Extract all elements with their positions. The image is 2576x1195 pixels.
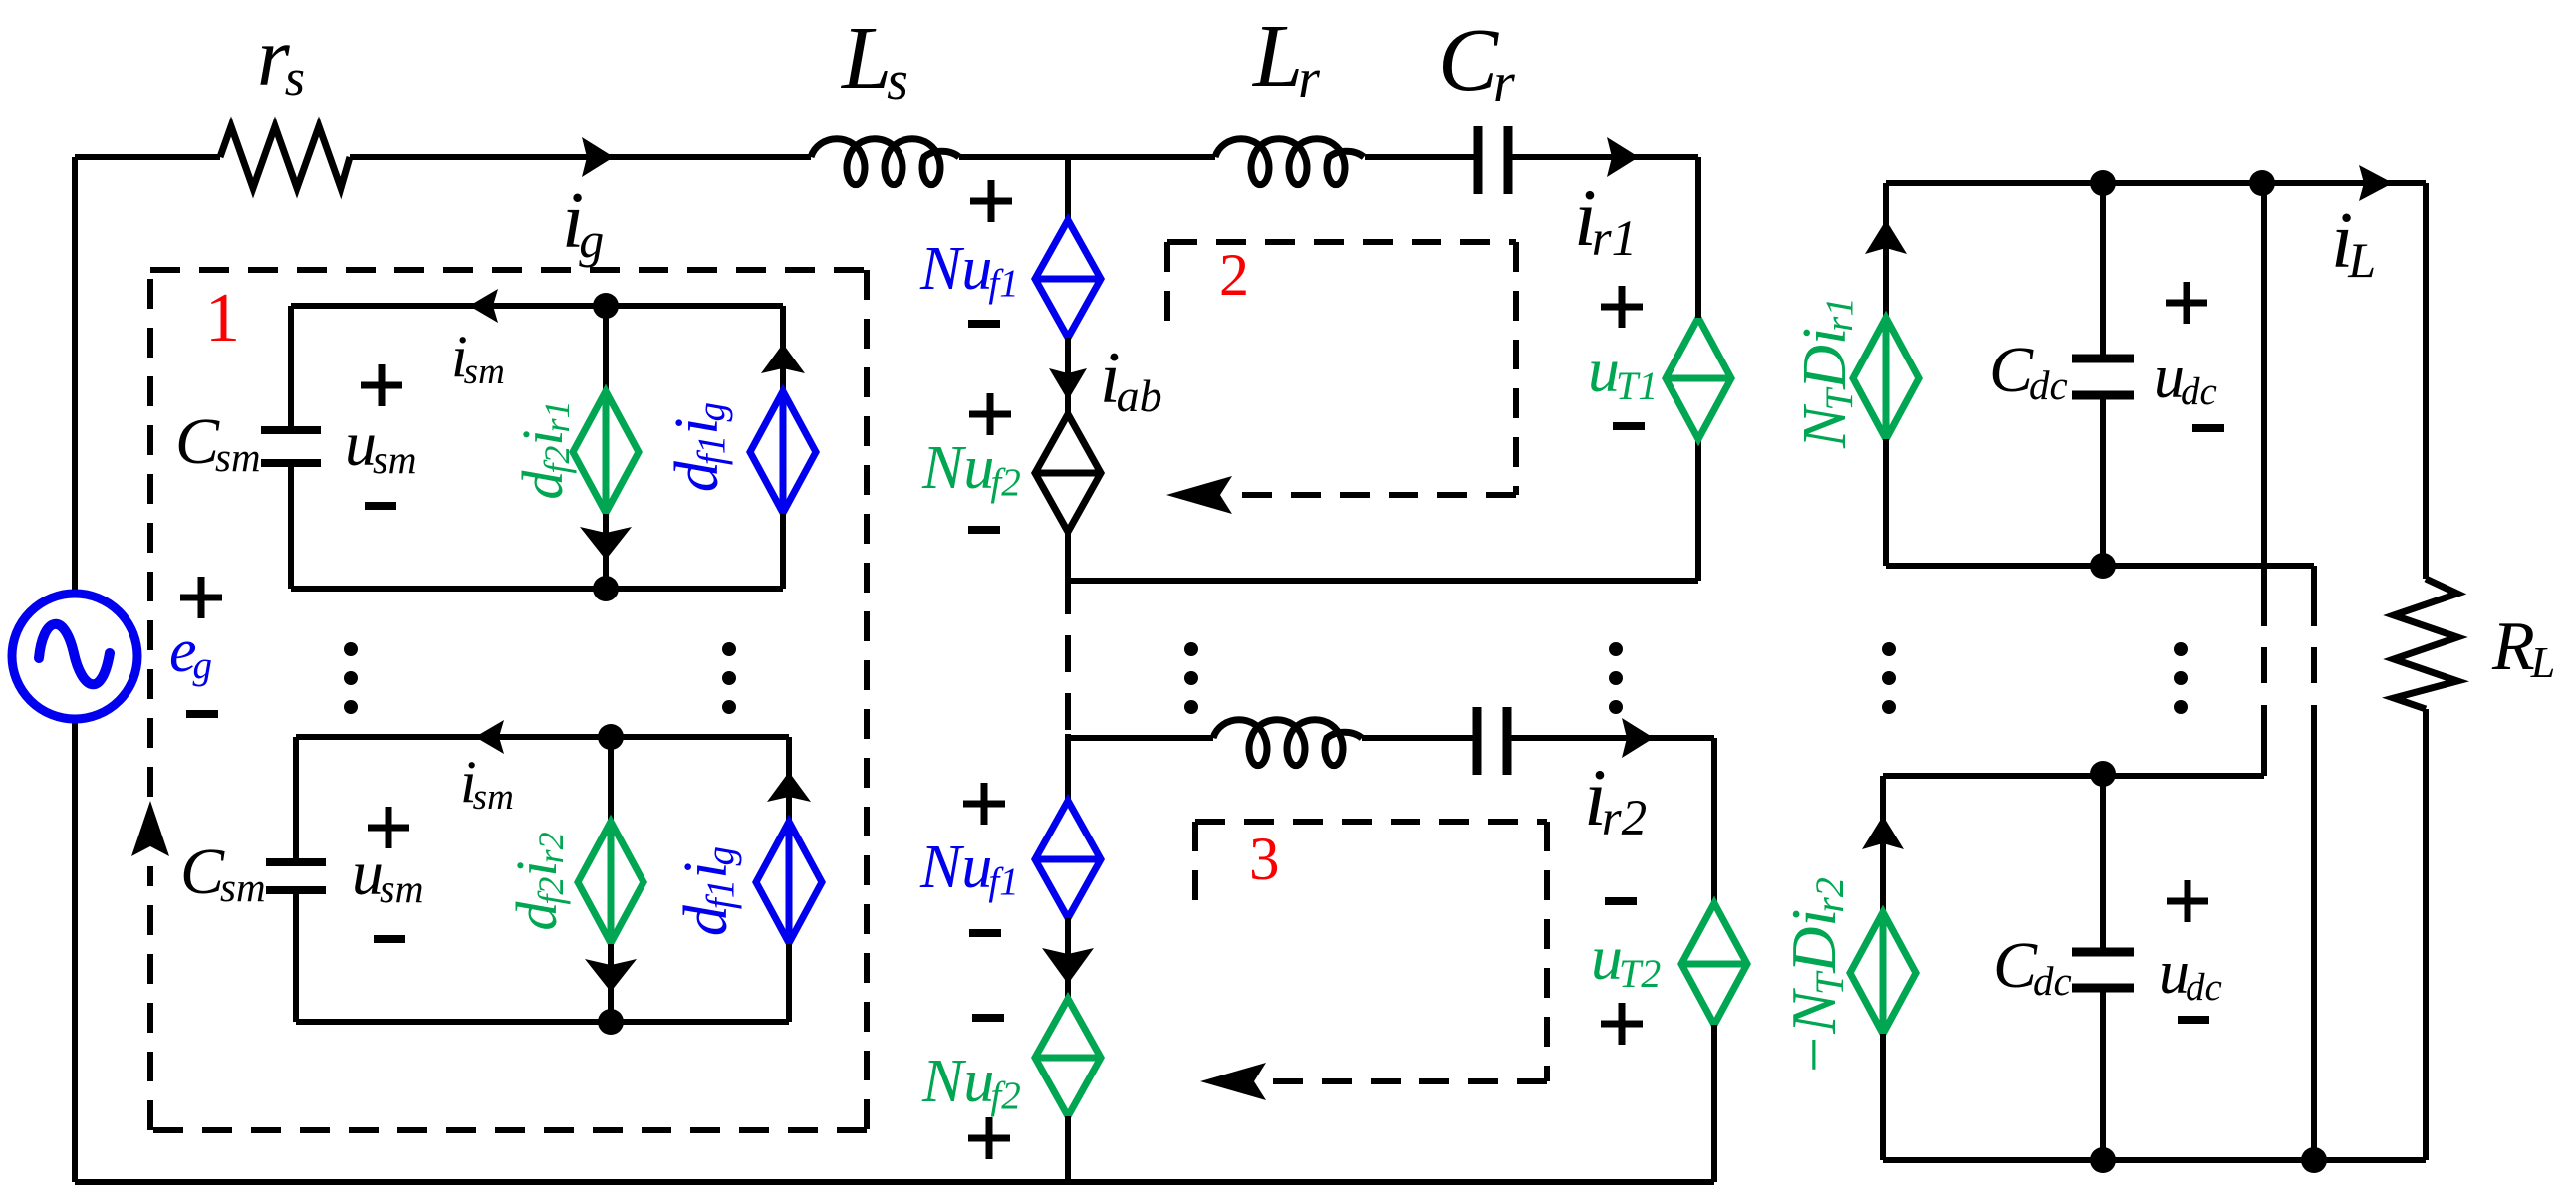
wire Cdc lower bottom lead xyxy=(2100,988,2106,1160)
inductor Lr xyxy=(1215,139,1364,185)
minus usm cell2 xyxy=(374,935,405,943)
wire Nuf2 to junction ch1 xyxy=(1065,533,1071,614)
minus eg xyxy=(186,710,218,718)
continuation dots left column xyxy=(344,642,358,714)
svg-text:Cr: Cr xyxy=(1438,11,1515,114)
arrow above df1ig cell2 xyxy=(767,772,811,802)
arrow iab xyxy=(1049,368,1087,400)
capacitor Cr xyxy=(1478,126,1508,194)
wire ch2 junction to Nuf1 xyxy=(1065,734,1071,801)
svg-text:Cdc: Cdc xyxy=(1989,334,2068,408)
svg-text:usm: usm xyxy=(352,837,424,911)
capacitor Csm cell2 xyxy=(266,862,326,890)
wire ch2 capacitor to uT2 xyxy=(1507,735,1714,741)
plus Nuf2 ch1 xyxy=(969,393,1011,435)
wire NTDir2 top lead xyxy=(1880,776,1886,912)
svg-text:usm: usm xyxy=(345,408,417,482)
cell2 blue source bottom lead xyxy=(786,944,792,1022)
plus Nuf1 ch1 xyxy=(970,180,1012,222)
svg-text:Nuf1: Nuf1 xyxy=(919,834,1019,903)
arrow ig current xyxy=(582,137,614,177)
svg-text:Cdc: Cdc xyxy=(1993,929,2072,1004)
capacitor Cdc upper xyxy=(2072,358,2134,395)
cell2 top wire xyxy=(296,734,789,740)
wire ch2 inductor to capacitor xyxy=(1362,735,1477,741)
wire left vertical upper xyxy=(72,157,78,595)
svg-text:1: 1 xyxy=(205,280,240,357)
arrow NTDir2 current xyxy=(1862,816,1904,849)
cell1 left wire upper xyxy=(288,306,294,430)
source uT1 xyxy=(1666,318,1731,439)
svg-text:Lr: Lr xyxy=(1251,7,1320,110)
continuation dots middle-right column xyxy=(1609,642,1623,714)
minus uT2 xyxy=(1605,897,1637,905)
cell1 green source top lead xyxy=(603,306,609,391)
svg-text:udc: udc xyxy=(2154,344,2217,413)
AC source sine wave xyxy=(39,624,110,684)
controlled source df2ir1 cell1 xyxy=(573,391,639,513)
wire ch2 to inductor xyxy=(1068,735,1213,741)
arrow on box1 left edge xyxy=(131,801,169,856)
plus udc upper xyxy=(2166,282,2207,324)
svg-text:iab: iab xyxy=(1100,338,1162,421)
cell1 green source bottom lead xyxy=(603,514,609,589)
wire Cr to uT1 branch xyxy=(1508,154,1698,160)
cell2 left wire lower xyxy=(293,890,299,1022)
arrow ir2 current xyxy=(1622,718,1654,758)
dashed box 2 bottom edge xyxy=(1235,492,1516,498)
plus uT2 xyxy=(1601,1003,1643,1045)
arrow below df2ir2 cell2 xyxy=(585,959,637,992)
svg-text:iL: iL xyxy=(2331,197,2376,288)
dashed box 3 right edge xyxy=(1544,822,1550,1081)
plus Nuf1 ch2 xyxy=(963,783,1005,825)
dashed box 2 top edge xyxy=(1167,239,1516,245)
controlled source df1ig cell1 xyxy=(750,391,816,513)
plus uT1 xyxy=(1601,286,1643,328)
svg-text:Nuf2: Nuf2 xyxy=(921,434,1021,504)
cell2 blue source top lead xyxy=(786,737,792,821)
capacitor Csm cell1 xyxy=(261,430,321,463)
resistor RL xyxy=(2394,579,2457,709)
wire right parallel vertical upper xyxy=(2261,183,2267,776)
wire Nuf1 to Nuf2 ch2 xyxy=(1065,918,1071,1000)
wire right series vertical xyxy=(2311,566,2317,1160)
cell2 bottom wire xyxy=(296,1019,789,1025)
node right bottom series xyxy=(2301,1147,2327,1173)
wire NTDir1 top lead xyxy=(1883,183,1889,318)
svg-text:ism: ism xyxy=(460,749,514,818)
arrow NTDir1 current xyxy=(1865,220,1907,254)
dashed box 2 left stub xyxy=(1164,242,1170,329)
wire right block upper bottom xyxy=(1886,563,2314,569)
cell2 green source top lead xyxy=(608,737,614,822)
plus udc lower xyxy=(2167,880,2208,922)
dashed continuation of middle branch xyxy=(1065,635,1071,730)
cell1 left wire lower xyxy=(288,463,294,589)
source NTDir1 xyxy=(1853,318,1919,439)
arrow ir1 current xyxy=(1607,137,1639,177)
cell1 bottom wire xyxy=(291,586,783,592)
cell1 blue source top lead xyxy=(780,306,786,389)
arrow above df1ig cell1 xyxy=(761,344,805,373)
minus Nuf1 ch1 xyxy=(968,320,1000,328)
minus Nuf2 ch2 xyxy=(972,1014,1004,1022)
plus eg xyxy=(180,577,222,618)
wire uT2 bottom lead xyxy=(1711,1025,1717,1182)
node cell2 bottom xyxy=(598,1009,624,1035)
minus udc lower xyxy=(2178,1016,2209,1024)
svg-text:df1 ig: df1 ig xyxy=(663,402,733,492)
cell1 blue source bottom lead xyxy=(780,514,786,589)
source Nuf2 ch1 xyxy=(1035,414,1101,532)
arrow on box3 bottom edge xyxy=(1200,1063,1266,1100)
cell2 green source bottom lead xyxy=(608,944,614,1022)
minus usm cell1 xyxy=(365,502,396,510)
dashed box 1 bottom edge xyxy=(150,1127,867,1133)
wire RL bottom lead xyxy=(2423,709,2429,1160)
continuation dots middle-left column xyxy=(1184,642,1198,714)
dashed box 2 right edge xyxy=(1513,242,1519,495)
arrow ism cell1 xyxy=(469,289,498,323)
wire uT1 bottom lead xyxy=(1695,439,1701,581)
source negative NTDir2 xyxy=(1850,912,1916,1034)
source Nuf2 ch2 xyxy=(1035,999,1101,1116)
arrow ism cell2 xyxy=(475,720,504,754)
wire Cdc upper bottom lead xyxy=(2100,395,2106,566)
cell1 top wire xyxy=(291,303,783,309)
wire rs to Ls xyxy=(350,154,811,160)
plus usm cell2 xyxy=(368,807,409,848)
svg-text:Ls: Ls xyxy=(840,9,908,112)
svg-text:df2 ir1: df2 ir1 xyxy=(510,400,577,499)
minus Nuf2 ch1 xyxy=(968,526,1000,534)
wire top node to Nuf1 xyxy=(1065,157,1071,221)
wire Cdc lower top lead xyxy=(2100,776,2106,952)
wire top-left from source to rs xyxy=(75,154,220,160)
wire right block lower top xyxy=(1883,773,2264,779)
plus Nuf2 ch2 xyxy=(968,1117,1010,1159)
dashed box 1 right edge xyxy=(864,270,870,1130)
continuation dots right Cdc column xyxy=(2174,642,2188,714)
continuation dots cell right column xyxy=(722,642,736,714)
wire NTDir2 bottom lead xyxy=(1880,1034,1886,1160)
node right lower top Cdc xyxy=(2090,761,2116,787)
svg-text:ir2: ir2 xyxy=(1584,752,1647,846)
plus usm cell1 xyxy=(361,364,402,406)
svg-text:df1 ig: df1 ig xyxy=(672,846,742,936)
svg-text:Nuf1: Nuf1 xyxy=(919,235,1019,305)
wire left vertical lower xyxy=(72,718,78,1182)
dashed box 3 bottom edge xyxy=(1266,1078,1547,1084)
continuation dots right source column xyxy=(1882,642,1896,714)
controlled source df1ig cell2 xyxy=(756,822,822,943)
controlled source df2ir2 cell2 xyxy=(578,822,644,943)
svg-text:−NT Dir2: −NT Dir2 xyxy=(1778,877,1852,1076)
node right bottom Cdc xyxy=(2090,1147,2116,1173)
dashed box 1 top edge xyxy=(150,267,867,273)
svg-text:uT2: uT2 xyxy=(1591,922,1661,996)
wire right block top xyxy=(1886,180,2426,186)
source uT2 xyxy=(1681,903,1747,1025)
svg-text:RL: RL xyxy=(2491,608,2555,687)
svg-text:ig: ig xyxy=(562,177,604,268)
arrow ch2 current xyxy=(1042,948,1094,984)
svg-text:df2 ir2: df2 ir2 xyxy=(504,832,571,930)
dashed box 1 left edge upper xyxy=(147,270,153,797)
node cell1 bottom xyxy=(593,576,619,601)
svg-text:NT Dir1: NT Dir1 xyxy=(1791,297,1861,449)
dashed box 1 left edge lower xyxy=(147,866,153,1130)
arrow on box2 bottom edge xyxy=(1166,476,1232,514)
resistor rs xyxy=(220,126,350,188)
wire uT2 top lead xyxy=(1711,738,1717,903)
wire Nuf2 ch2 to bottom xyxy=(1065,1116,1071,1182)
arrow below df2ir1 cell1 xyxy=(580,527,632,560)
wire Nuf1 to Nuf2 ch1 xyxy=(1065,338,1071,413)
wire bottom return xyxy=(75,1179,1714,1185)
node right top parallel xyxy=(2249,170,2275,196)
node right top Cdc xyxy=(2090,170,2116,196)
minus Nuf1 ch2 xyxy=(969,929,1001,937)
svg-text:2: 2 xyxy=(1219,242,1249,308)
svg-text:Csm: Csm xyxy=(175,405,261,480)
arrow iL current xyxy=(2359,165,2393,201)
wire uT1 top lead xyxy=(1695,157,1701,318)
svg-text:uT1: uT1 xyxy=(1588,335,1658,408)
wire NTDir1 bottom lead xyxy=(1883,439,1889,566)
inductor Ls xyxy=(811,139,959,185)
svg-text:ism: ism xyxy=(451,324,505,392)
dashed box 3 top edge xyxy=(1195,819,1547,825)
svg-text:udc: udc xyxy=(2159,939,2222,1009)
svg-text:Nuf2: Nuf2 xyxy=(921,1048,1021,1117)
wire Lr to Cr xyxy=(1365,154,1478,160)
capacitor Cdc lower xyxy=(2072,952,2134,988)
svg-text:3: 3 xyxy=(1249,827,1280,893)
node cell1 top xyxy=(593,293,619,319)
svg-text:eg: eg xyxy=(169,617,212,687)
wire Cdc upper top lead xyxy=(2100,183,2106,358)
minus uT1 xyxy=(1613,422,1645,430)
node cell2 top xyxy=(598,724,624,750)
cell2 left wire upper xyxy=(293,737,299,862)
inductor Lr channel2 xyxy=(1213,720,1362,766)
wire Ls to Lr junction xyxy=(959,154,1215,160)
wire right block bottom xyxy=(1883,1157,2426,1163)
capacitor Cr channel2 xyxy=(1477,707,1507,775)
source Nuf1 ch1 xyxy=(1035,220,1101,338)
wire loop2 bottom return xyxy=(1068,578,1698,584)
wire RL top lead xyxy=(2423,183,2429,579)
source Nuf1 ch2 xyxy=(1035,801,1101,918)
minus udc upper xyxy=(2192,424,2224,432)
node right mid Cdc xyxy=(2090,553,2116,579)
dashed box 3 left stub xyxy=(1192,822,1198,912)
svg-text:Csm: Csm xyxy=(180,836,266,910)
svg-text:rs: rs xyxy=(257,11,305,107)
AC source eg circle xyxy=(12,594,137,719)
svg-text:ir1: ir1 xyxy=(1574,172,1637,267)
